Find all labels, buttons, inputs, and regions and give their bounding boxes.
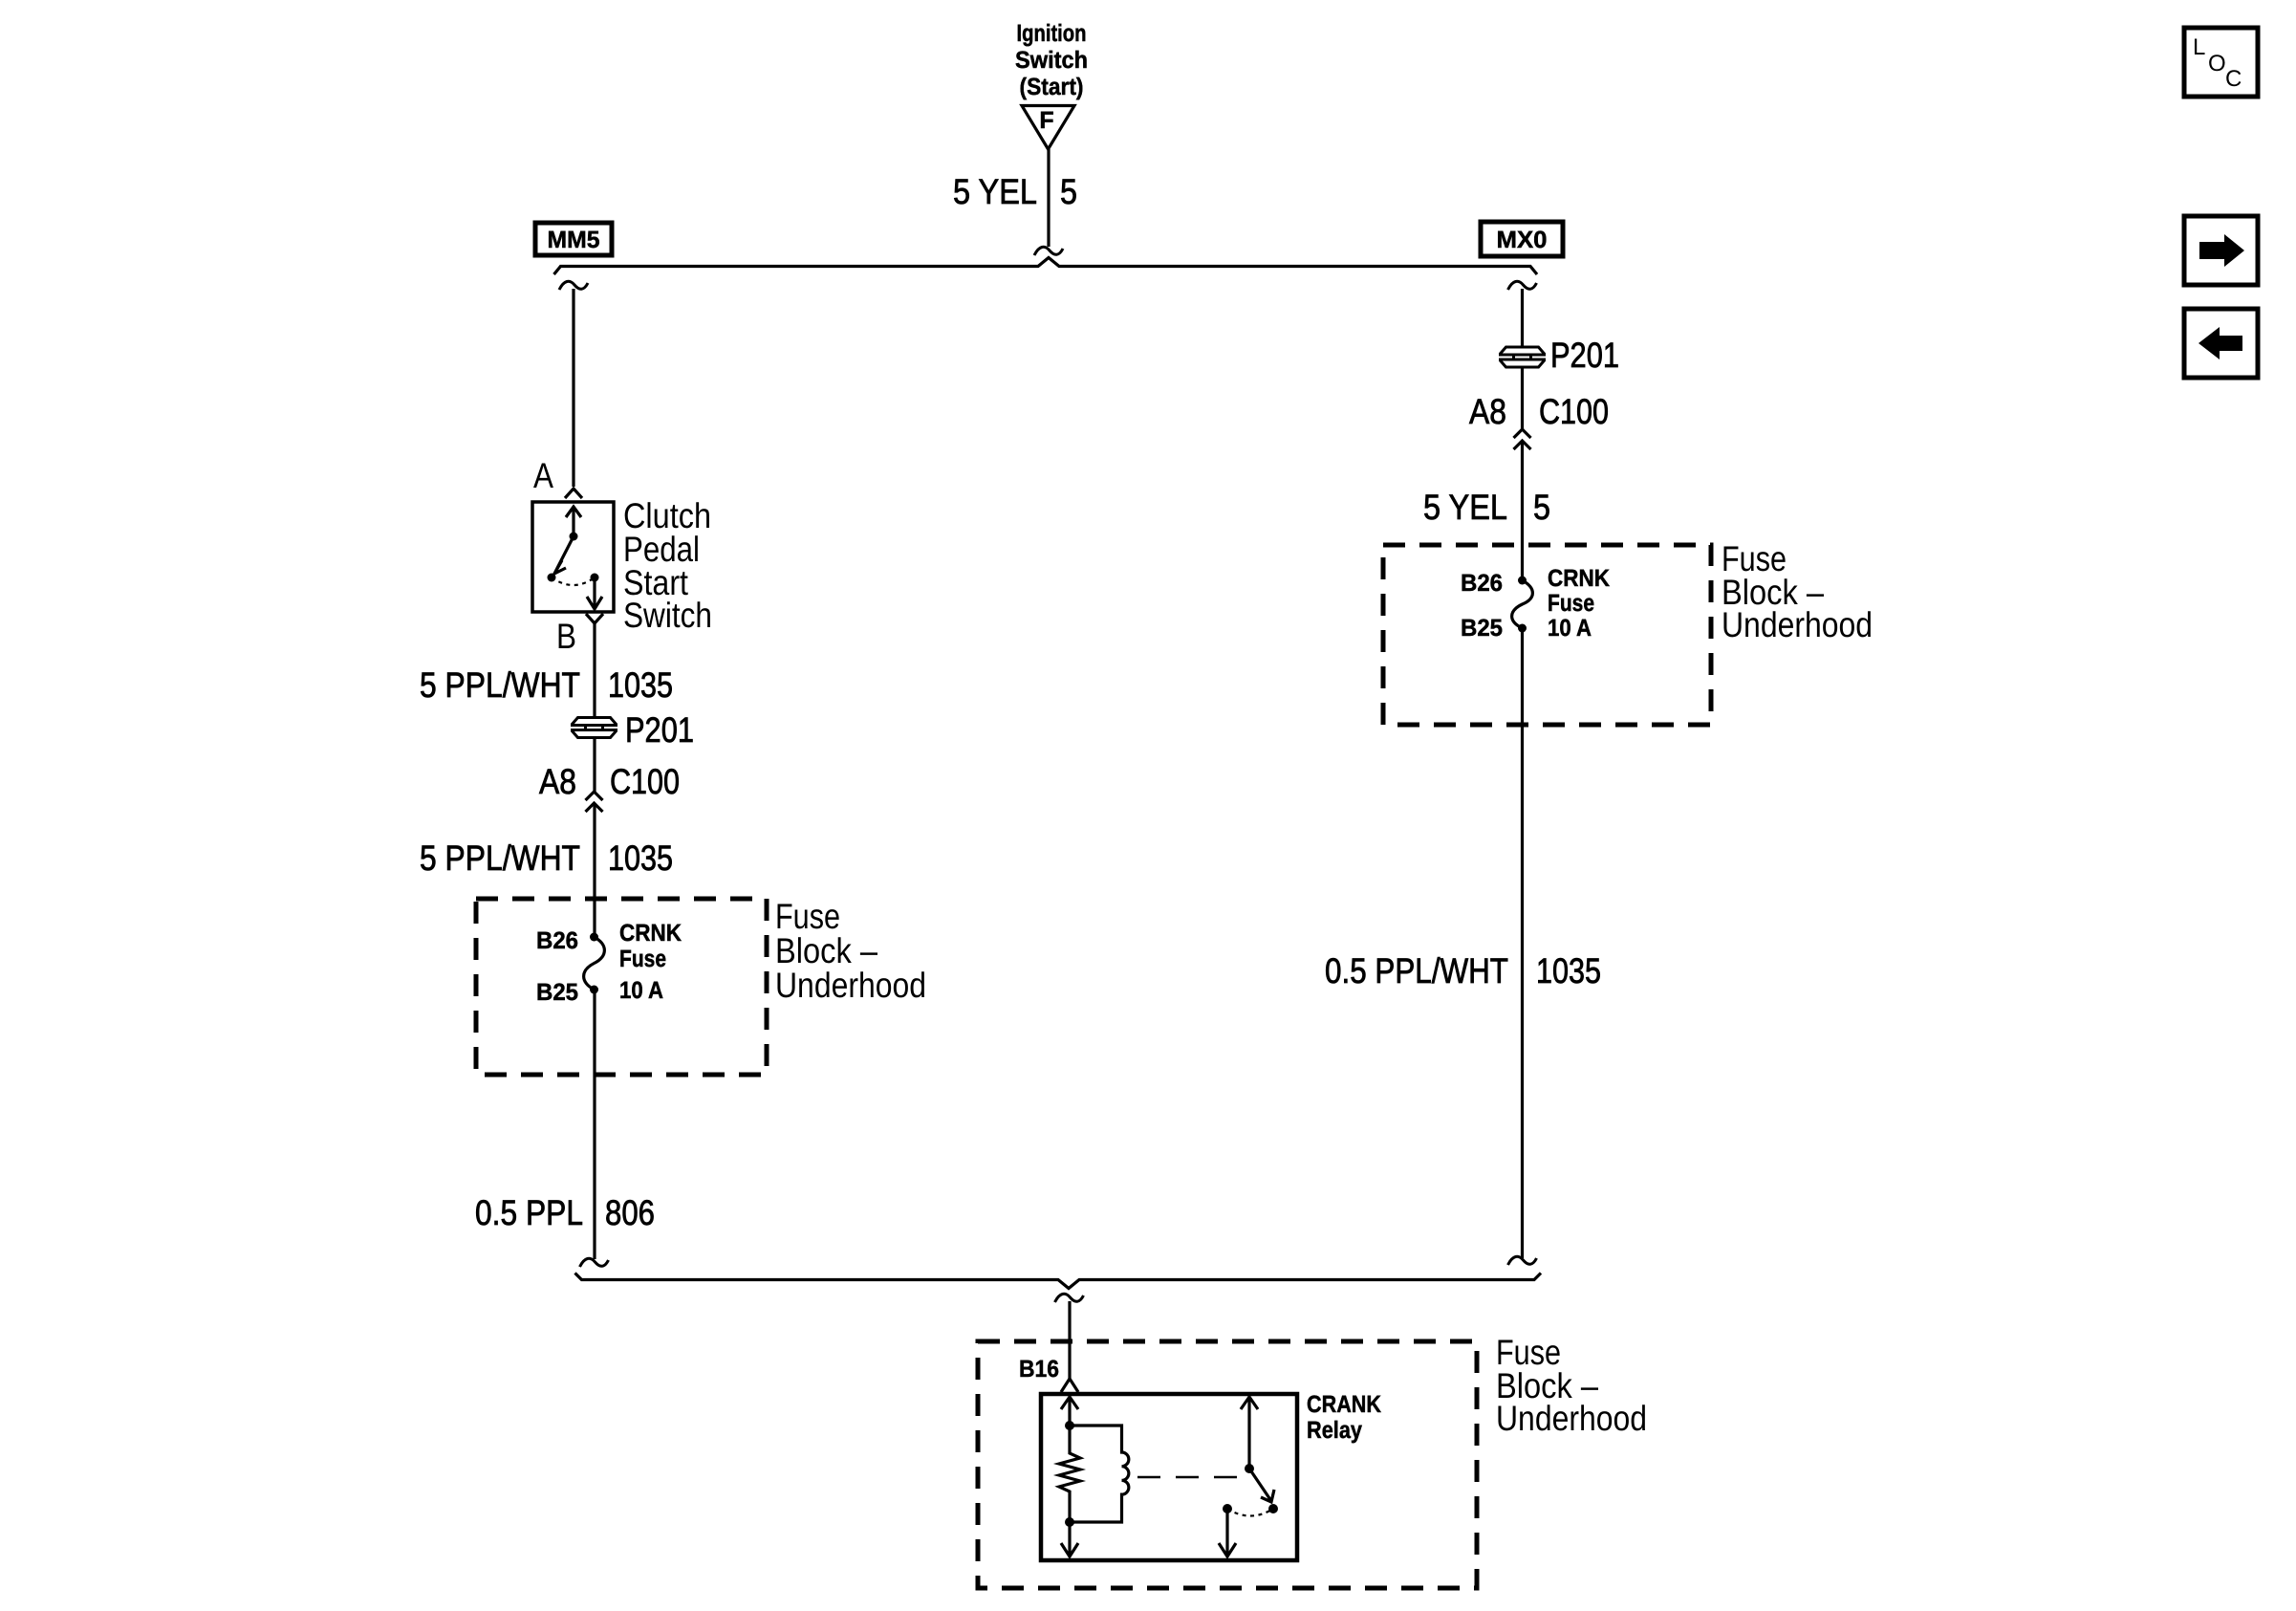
svg-text:B26: B26 <box>536 927 578 954</box>
svg-text:A8: A8 <box>1469 392 1506 431</box>
svg-text:806: 806 <box>605 1193 655 1232</box>
connector triangle F (Ignition Switch feed) <box>1022 106 1074 150</box>
relay switch bottom arrow <box>1219 1509 1236 1557</box>
svg-text:P201: P201 <box>625 710 694 750</box>
svg-text:10 A: 10 A <box>619 977 663 1004</box>
CRNK fuse (left) <box>584 937 605 990</box>
wire from ignition switch F down to splice <box>1047 149 1050 247</box>
relay switch dots <box>1245 1464 1254 1473</box>
svg-text:1035: 1035 <box>608 838 673 878</box>
svg-text:5 PPL/WHT: 5 PPL/WHT <box>420 838 580 878</box>
right branch: break below bus <box>1508 281 1537 290</box>
wire break symbol above bottom bus (left) <box>580 1258 609 1267</box>
svg-text:Underhood: Underhood <box>1496 1399 1647 1438</box>
relay switch dashed travel arc <box>1227 1509 1273 1516</box>
clutch switch internal: bottom arrow <box>587 577 602 609</box>
wire below grommet <box>593 738 596 792</box>
svg-text:1035: 1035 <box>608 665 673 705</box>
wire B down to P201 <box>593 623 596 716</box>
legend icon: LOC box <box>2184 28 2258 97</box>
svg-text:CRNK: CRNK <box>1548 565 1610 592</box>
svg-text:L: L <box>2193 34 2205 60</box>
CRANK relay box <box>1041 1394 1297 1560</box>
svg-text:MX0: MX0 <box>1497 227 1548 253</box>
relay switch top arrow <box>1241 1397 1258 1469</box>
wire down into fuse block <box>593 803 596 937</box>
svg-text:A8: A8 <box>539 762 576 801</box>
svg-text:5 YEL: 5 YEL <box>1423 488 1507 527</box>
wire break symbol above top bus <box>1034 247 1063 255</box>
bottom bus wire with junction notch <box>575 1274 1542 1289</box>
CRNK fuse (right) <box>1512 580 1533 628</box>
svg-text:(Start): (Start) <box>1020 74 1084 100</box>
clutch pedal start switch box <box>532 502 614 612</box>
fuse block underhood dashed box (right) <box>1383 545 1711 725</box>
svg-text:F: F <box>1039 107 1053 134</box>
net tag MX0 <box>1481 222 1563 256</box>
svg-text:CRANK: CRANK <box>1307 1391 1381 1418</box>
relay switch blade with arrowhead <box>1249 1469 1274 1502</box>
inline connector C100 double chevron (right) <box>1514 429 1531 449</box>
clutch switch internal: top arrow <box>566 507 581 536</box>
svg-text:Underhood: Underhood <box>775 966 926 1005</box>
svg-text:0.5 PPL: 0.5 PPL <box>475 1193 583 1232</box>
pin B16 chevron <box>1061 1379 1078 1392</box>
inline connector C100 double chevron <box>586 792 603 812</box>
svg-text:CRNK: CRNK <box>619 920 682 947</box>
fuse block underhood dashed box (bottom) <box>978 1341 1477 1588</box>
svg-text:Ignition: Ignition <box>1017 20 1087 47</box>
relay actuation dashed link <box>1137 1476 1241 1479</box>
svg-text:MM5: MM5 <box>548 227 600 253</box>
svg-text:5: 5 <box>1060 172 1077 211</box>
clutch switch dashed travel arc <box>552 577 595 585</box>
wire break symbol above bottom bus (right) <box>1508 1256 1537 1265</box>
svg-text:B: B <box>556 617 576 656</box>
clutch switch internal: movable blade with arrowhead <box>554 536 574 574</box>
component label: Fuse Block - Underhood (left) <box>775 897 926 1005</box>
svg-text:B25: B25 <box>1461 615 1503 642</box>
left branch wire to clutch switch pin A <box>572 289 574 487</box>
fuse block underhood dashed box (left) <box>476 899 767 1075</box>
svg-text:B16: B16 <box>1019 1356 1059 1382</box>
component label: Ignition Switch (Start) <box>1015 20 1088 100</box>
relay coil node dots <box>1065 1421 1074 1430</box>
svg-text:1035: 1035 <box>1536 951 1601 991</box>
svg-text:C100: C100 <box>610 762 680 801</box>
wire break symbol below bus left <box>559 281 588 290</box>
svg-text:0.5 PPL/WHT: 0.5 PPL/WHT <box>1325 951 1508 991</box>
relay coil branch top arrow <box>1061 1397 1078 1426</box>
component label: Clutch Pedal Start Switch <box>623 496 712 635</box>
component label: CRANK Relay <box>1307 1391 1381 1444</box>
wire down into right fuse block <box>1521 441 1524 580</box>
svg-text:O: O <box>2208 51 2226 76</box>
svg-text:P201: P201 <box>1550 336 1619 375</box>
pin A chevron <box>565 489 582 498</box>
svg-text:10 A: 10 A <box>1548 615 1592 642</box>
net tag MM5 <box>535 223 612 255</box>
svg-text:Switch: Switch <box>623 596 712 635</box>
svg-text:Block –: Block – <box>775 931 877 970</box>
pin B chevron <box>586 614 603 623</box>
wire break symbol below bottom bus junction <box>1055 1294 1084 1302</box>
svg-text:C: C <box>2225 66 2242 92</box>
svg-text:Relay: Relay <box>1307 1417 1362 1444</box>
wire from MX0 bus down to P201 (right) <box>1521 289 1524 346</box>
relay coil L <box>1070 1426 1129 1522</box>
component label: Fuse Block - Underhood (bottom) <box>1496 1333 1647 1438</box>
svg-text:B26: B26 <box>1461 570 1503 597</box>
svg-text:Underhood: Underhood <box>1722 605 1873 644</box>
svg-text:Switch: Switch <box>1015 47 1088 74</box>
svg-text:A: A <box>533 456 553 495</box>
relay coil bottom arrow <box>1061 1522 1078 1557</box>
svg-text:5: 5 <box>1533 488 1550 527</box>
svg-text:Fuse: Fuse <box>775 897 840 936</box>
component label: Fuse Block - Underhood (right) <box>1722 539 1873 644</box>
wire from right fuse down to bottom bus <box>1521 628 1524 1258</box>
wire from fuse down to bottom bus <box>593 990 596 1259</box>
clutch switch contact dots <box>570 533 578 541</box>
grommet P201 (right) <box>1499 347 1546 367</box>
relay resistor R <box>1059 1426 1080 1522</box>
svg-text:5 YEL: 5 YEL <box>953 172 1037 211</box>
svg-text:C100: C100 <box>1539 392 1609 431</box>
svg-text:Fuse: Fuse <box>1548 590 1594 617</box>
grommet P201 (left) <box>571 718 617 738</box>
svg-text:5 PPL/WHT: 5 PPL/WHT <box>420 665 580 705</box>
wire down to crank relay B16 <box>1068 1301 1071 1379</box>
legend icon: right arrow box <box>2184 216 2258 285</box>
svg-text:Fuse: Fuse <box>619 946 666 972</box>
wire below grommet (right) <box>1521 368 1524 429</box>
legend icon: left arrow box <box>2184 309 2258 378</box>
top bus wire with junction notch <box>554 258 1538 275</box>
svg-text:B25: B25 <box>536 979 578 1006</box>
